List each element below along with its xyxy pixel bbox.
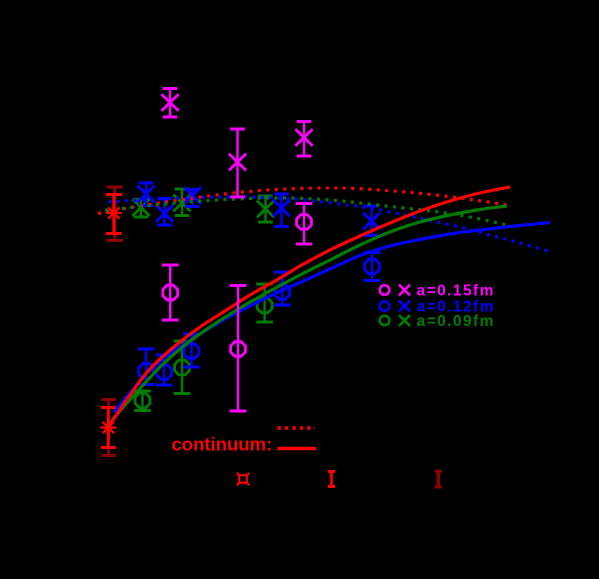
- green circle data point a=0.09fm #2 (lower band): [174, 341, 191, 394]
- svg-text:a=0.09fm: a=0.09fm: [417, 313, 495, 330]
- green cross data point a=0.09fm #3 (upper band): [257, 196, 274, 222]
- dark-red error bar near x-axis: [435, 471, 442, 487]
- blue cross data point a=0.12fm #5 (upper band): [363, 206, 380, 236]
- magenta circle data point a=0.15fm #1 (lower band): [162, 265, 179, 320]
- dark-red error bar upper-left (physical point, K): [107, 187, 123, 241]
- blue dotted fit curve a=0.12fm (upper band): [108, 197, 550, 252]
- legend a=0.09fm: green cross symbol: [399, 315, 410, 326]
- legend a=0.12fm: blue circle symbol: [380, 301, 390, 311]
- dark-red error bar lower-left (physical point, pi): [102, 400, 116, 456]
- green cross data point a=0.09fm #1 (upper band): [132, 199, 149, 217]
- blue circle data point a=0.12fm #2 (lower band): [156, 355, 173, 385]
- red star physical point upper-left (K) with error bar: [106, 195, 122, 234]
- green solid fit curve a=0.09fm (lower band): [112, 206, 507, 420]
- legend red solid line sample: [278, 447, 317, 450]
- legend a=0.09fm: green circle symbol: [380, 316, 390, 326]
- svg-text:continuum:: continuum:: [172, 434, 273, 455]
- red star physical point lower-left (pi) with error bar: [100, 408, 116, 448]
- blue solid fit curve a=0.12fm (lower band): [114, 223, 550, 413]
- blue cross data point a=0.12fm #1 (upper band): [137, 183, 154, 206]
- legend a=0.12fm: blue cross symbol: [399, 301, 410, 312]
- blue circle data point a=0.12fm #3 (lower band): [183, 334, 200, 367]
- blue circle data point a=0.12fm #1 (lower band): [138, 349, 155, 385]
- blue circle data point a=0.12fm #4 (lower band): [274, 272, 291, 305]
- blue cross data point a=0.12fm #2 (upper band): [156, 199, 173, 226]
- magenta cross data point a=0.15fm #3 (upper band): [295, 122, 312, 157]
- svg-text:a=0.15fm: a=0.15fm: [417, 283, 495, 300]
- legend a=0.15fm: magenta cross symbol: [399, 285, 410, 296]
- blue cross data point a=0.12fm #4 (upper band): [273, 194, 290, 227]
- magenta circle data point a=0.15fm #3 (lower band): [296, 204, 313, 245]
- green circle data point a=0.09fm #1 (lower band): [134, 391, 151, 411]
- blue circle data point a=0.12fm #5 (lower band): [364, 253, 381, 281]
- magenta cross data point a=0.15fm #1 (upper band): [161, 89, 178, 118]
- red solid continuum-extrapolation curve (lower band): [109, 187, 510, 426]
- magenta circle data point a=0.15fm #2 (lower band): [230, 286, 247, 412]
- legend red dotted line sample: [278, 426, 316, 429]
- magenta cross data point a=0.15fm #2 (upper band): [229, 129, 246, 197]
- red boxed-cross marker near x-axis: [237, 473, 249, 485]
- green dotted fit curve a=0.09fm (upper band): [105, 198, 507, 225]
- red error bar near x-axis: [328, 472, 335, 487]
- blue cross data point a=0.12fm #3 (upper band): [184, 187, 201, 206]
- red dotted continuum-extrapolation curve (upper band): [98, 188, 509, 214]
- green circle data point a=0.09fm #3 (lower band): [256, 284, 273, 322]
- green cross data point a=0.09fm #2 (upper band): [173, 189, 190, 216]
- legend a=0.15fm: magenta circle symbol: [380, 285, 390, 295]
